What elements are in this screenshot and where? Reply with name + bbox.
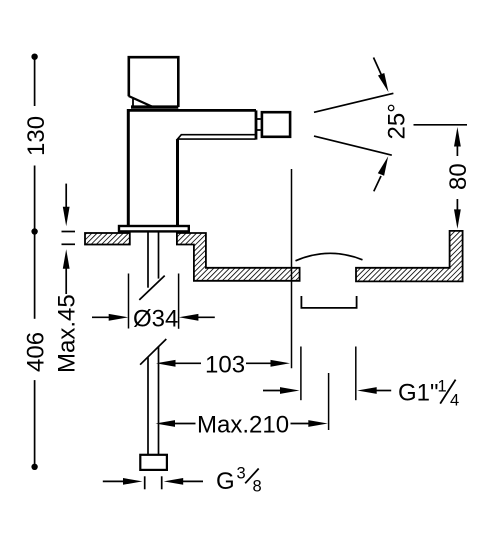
dimension Max.45	[54, 184, 81, 373]
spout underside	[178, 135, 256, 139]
svg-text:G: G	[216, 468, 235, 495]
spray angle upper line	[314, 93, 393, 112]
drain bracket	[301, 296, 356, 308]
svg-text:Max.45: Max.45	[54, 294, 81, 373]
base plate	[119, 226, 189, 231]
svg-text:103: 103	[205, 352, 245, 379]
supply pipe upper	[148, 232, 159, 288]
dimension G 3/8	[103, 465, 262, 496]
faucet handle	[129, 57, 179, 107]
dimension G1 1/4 extension lines	[301, 347, 356, 401]
leader arrow lower	[374, 156, 388, 191]
pipe break slash upper	[139, 276, 164, 300]
counter right slab with upstand	[356, 231, 463, 282]
spray angle lower line	[314, 136, 392, 155]
svg-text:80: 80	[445, 163, 472, 190]
dimension diameter 34	[92, 274, 215, 333]
svg-text:Ø34: Ø34	[133, 306, 178, 333]
svg-text:Max.210: Max.210	[197, 412, 289, 439]
counter middle slab (step section)	[177, 233, 300, 281]
svg-text:G1": G1"	[398, 380, 439, 407]
leader arrow upper	[374, 58, 389, 93]
dimension Max.210 extension line	[328, 373, 330, 430]
svg-text:8: 8	[253, 478, 262, 496]
svg-text:130: 130	[23, 116, 50, 156]
pipe end nut	[140, 455, 167, 470]
dimension 406	[23, 232, 50, 470]
svg-text:3: 3	[237, 465, 246, 483]
dimension 130	[23, 54, 50, 235]
label 25 degrees	[384, 103, 411, 139]
dimension 103	[156, 352, 290, 379]
dimension G1 1/4	[263, 378, 459, 410]
svg-text:4: 4	[450, 392, 459, 410]
basin ceramic arc	[296, 253, 363, 261]
svg-text:25°: 25°	[384, 103, 411, 139]
svg-text:406: 406	[23, 332, 50, 372]
svg-text:1: 1	[438, 378, 447, 396]
aerator extension line	[291, 169, 293, 368]
counter left slab	[85, 233, 130, 245]
supply pipe lower	[148, 346, 159, 455]
dimension Max.210	[156, 412, 328, 439]
dimension 80	[445, 127, 472, 229]
aerator	[262, 112, 290, 137]
reference line at spout height	[414, 124, 468, 126]
faucet body outline	[128, 109, 256, 226]
aerator connector	[256, 119, 261, 130]
pipe break slash lower	[140, 339, 166, 365]
